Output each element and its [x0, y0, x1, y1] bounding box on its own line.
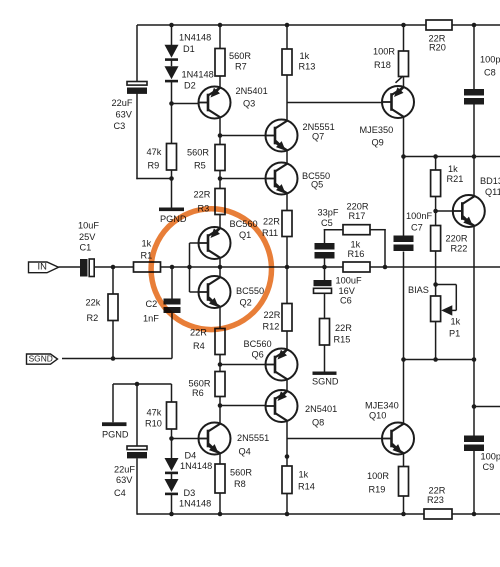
connector SGND tag: [27, 353, 58, 364]
node mid-R21: [433, 154, 438, 159]
wire Q10 base feed: [287, 438, 382, 440]
wire C3 top feed: [136, 25, 138, 82]
wire Q11 base: [436, 210, 453, 212]
resistor R15 labels: [334, 323, 353, 345]
svg-text:Q2: Q2: [240, 297, 252, 307]
wire negative supply rail: [137, 513, 500, 515]
node rail-R19: [401, 512, 406, 517]
svg-text:25V: 25V: [79, 232, 96, 242]
wire R15 to SGND: [324, 345, 326, 372]
wire R21 top: [435, 157, 437, 171]
node C1-R2: [111, 265, 116, 270]
wire C4 to rail: [136, 458, 138, 514]
wire Q3 base: [172, 103, 199, 105]
wire R7 top: [219, 25, 221, 49]
svg-text:16V: 16V: [339, 286, 356, 296]
transistor Q7: [265, 120, 298, 152]
resistor R16 labels: [348, 239, 365, 258]
node base tie: [187, 265, 192, 270]
transistor Q10: [382, 423, 415, 455]
resistor R15: [320, 319, 330, 346]
capacitor C2: [164, 299, 181, 314]
resistor R13 labels: [299, 51, 316, 72]
resistor R8: [215, 464, 225, 493]
svg-text:P1: P1: [449, 328, 460, 338]
potentiometer P1 labels: [449, 316, 461, 338]
svg-text:R14: R14: [298, 481, 315, 491]
transistor Q1: [198, 227, 231, 259]
svg-text:63V: 63V: [116, 475, 133, 485]
transistor Q3: [198, 87, 231, 119]
wire Q10 emitter: [403, 453, 405, 467]
svg-text:Q11: Q11: [485, 187, 500, 197]
resistor R19: [399, 467, 409, 497]
wire C6 to R15: [324, 294, 326, 319]
wire R18 emitter tick: [396, 76, 403, 83]
svg-text:R16: R16: [348, 249, 365, 259]
node Q11 base: [433, 209, 438, 214]
resistor R17: [343, 225, 370, 235]
diode D3: [165, 479, 179, 495]
svg-text:R17: R17: [349, 211, 366, 221]
svg-text:C3: C3: [114, 121, 126, 131]
node supply-R13: [285, 23, 290, 28]
node supply-C8: [472, 23, 477, 28]
svg-text:1k: 1k: [448, 164, 458, 174]
wire R10 top lead: [171, 384, 173, 402]
svg-text:220R: 220R: [446, 233, 468, 243]
wire Q9 base feed: [287, 102, 382, 104]
svg-text:BC550: BC550: [236, 286, 264, 296]
svg-text:Q7: Q7: [312, 131, 324, 141]
svg-text:10uF: 10uF: [78, 220, 99, 230]
diode D2 labels: [182, 69, 214, 90]
transistor Q6 labels: [244, 339, 272, 360]
capacitor C7 labels: [406, 211, 432, 233]
node R9-C3-PGND: [169, 176, 174, 181]
svg-text:1N4148: 1N4148: [179, 498, 211, 508]
svg-text:22R: 22R: [264, 310, 281, 320]
wire R13 top: [286, 25, 288, 49]
wire R11 to node: [286, 237, 288, 268]
wire R13 to Q7: [286, 75, 288, 121]
node rail-R14: [285, 512, 290, 517]
capacitor C3 labels: [112, 98, 133, 131]
transistor Q8: [265, 390, 298, 422]
transistor Q6: [265, 349, 298, 381]
ground SGND symbol: [313, 372, 337, 375]
svg-text:22uF: 22uF: [112, 98, 133, 108]
node R6-Q4-Q8base: [218, 403, 223, 408]
capacitor C2 labels: [143, 299, 159, 324]
resistor R18 labels: [373, 46, 395, 70]
resistor R7 labels: [229, 51, 251, 72]
svg-text:R9: R9: [148, 160, 160, 170]
diode D2: [165, 66, 179, 82]
transistor Q3 labels: [236, 86, 268, 109]
svg-text:100R: 100R: [373, 46, 395, 56]
wire Q5 base: [220, 178, 266, 180]
transistor Q11: [452, 195, 485, 227]
wire PGND2 drop: [112, 384, 114, 422]
resistor R2: [108, 294, 118, 321]
node main-C5: [322, 265, 327, 270]
capacitor C8: [464, 89, 484, 105]
node rail-C9: [472, 512, 477, 517]
capacitor C8 labels: [480, 54, 500, 77]
svg-text:22R: 22R: [335, 323, 352, 333]
resistor R12: [282, 304, 292, 332]
node R4-R6-Q6base: [218, 362, 223, 367]
wire Q4 base feed: [172, 438, 199, 440]
svg-text:R15: R15: [334, 334, 351, 344]
resistor R2 labels: [86, 297, 101, 323]
wire out stub: [474, 406, 500, 408]
svg-text:100R: 100R: [367, 471, 389, 481]
ground PGND top label: [160, 214, 187, 224]
ground PGND top: [159, 208, 184, 212]
svg-text:D1: D1: [183, 44, 195, 54]
resistor R11 labels: [262, 216, 280, 238]
wire C6 top: [324, 267, 326, 280]
node supply-R18: [401, 23, 406, 28]
transistor Q2: [198, 276, 231, 308]
svg-text:BC560: BC560: [244, 339, 272, 349]
wire C8 to mid bus: [473, 105, 475, 157]
resistor R6: [215, 372, 225, 397]
capacitor C4: [127, 446, 147, 458]
wire R8 to rail: [219, 493, 221, 514]
svg-text:100pF: 100pF: [480, 54, 500, 64]
wire Q11 emitter: [473, 226, 475, 360]
wire R18 top: [403, 25, 405, 51]
svg-text:22R: 22R: [194, 189, 211, 199]
resistor R23 labels: [427, 485, 446, 505]
wire D1-D2: [171, 61, 173, 67]
node mid-Q9: [401, 154, 406, 159]
svg-text:100uF: 100uF: [336, 275, 362, 285]
capacitor C6 labels: [336, 275, 362, 305]
svg-text:R5: R5: [194, 160, 206, 170]
node supply-R7: [218, 23, 223, 28]
wire Q8 collector down: [286, 421, 288, 467]
wire Q4 emitter: [219, 453, 221, 464]
wire D2 to R9: [171, 82, 173, 144]
wire R22 to P1: [435, 251, 437, 296]
wire SGND line: [62, 358, 172, 360]
wire R2 to SGND line: [112, 321, 114, 359]
transistor Q9: [382, 86, 415, 118]
wire R4 to R6: [219, 355, 221, 372]
wire Q5 emitter to R11: [286, 193, 288, 211]
capacitor C5 labels: [318, 207, 339, 228]
svg-text:1nF: 1nF: [143, 313, 159, 323]
wire Q2 collector: [219, 267, 221, 278]
svg-text:R22: R22: [451, 243, 468, 253]
node out-right: [472, 404, 477, 409]
svg-text:MJE350: MJE350: [360, 125, 394, 135]
diode D4 labels: [180, 450, 212, 471]
wire C4 top lead: [136, 384, 138, 446]
svg-text:22R: 22R: [263, 216, 280, 226]
wire Q1 collector: [219, 258, 221, 268]
node main-R11: [285, 265, 290, 270]
svg-text:R8: R8: [234, 479, 246, 489]
wire R6 to Q4: [219, 397, 221, 425]
wire R19 to rail: [403, 496, 405, 514]
ground SGND label: [312, 376, 339, 386]
transistor Q11 labels: [480, 176, 500, 197]
wire IN to C1: [59, 266, 81, 268]
svg-text:PGND: PGND: [102, 429, 129, 439]
transistor Q5: [265, 163, 298, 195]
wire D3 to rail: [171, 495, 173, 514]
resistor R14: [282, 466, 292, 494]
wire R12 to Q6: [286, 331, 288, 350]
wire P1 to bias bus: [435, 322, 437, 360]
wire R21-R22: [435, 197, 437, 226]
capacitor C6: [314, 280, 332, 293]
transistor Q8 labels: [305, 404, 337, 428]
wire C2 bottom: [171, 313, 173, 359]
svg-text:R6: R6: [192, 388, 204, 398]
svg-text:1k: 1k: [451, 316, 461, 326]
wire bias bus: [404, 359, 475, 361]
wire R12 top: [286, 267, 288, 304]
node R1-C2: [170, 265, 175, 270]
svg-text:22uF: 22uF: [114, 464, 135, 474]
svg-text:R23: R23: [427, 495, 444, 505]
svg-text:1N4148: 1N4148: [179, 32, 211, 42]
wire C2 top: [171, 267, 173, 299]
svg-text:1k: 1k: [351, 239, 361, 249]
svg-text:Q5: Q5: [311, 179, 323, 189]
svg-text:BD139: BD139: [480, 176, 500, 186]
svg-text:Q6: Q6: [252, 349, 264, 359]
diode D3 labels: [179, 488, 211, 509]
svg-text:2N5401: 2N5401: [236, 86, 268, 96]
svg-text:100p: 100p: [481, 451, 500, 461]
svg-text:SGND: SGND: [29, 353, 53, 363]
capacitor C9: [464, 436, 484, 452]
diode D4: [165, 458, 179, 474]
wire R5 to R3: [219, 171, 221, 189]
svg-text:47k: 47k: [147, 407, 162, 417]
label BIAS: [408, 285, 429, 295]
potentiometer P1: [431, 285, 457, 322]
node Q1-Q2 node: [218, 265, 223, 270]
wire R3 to Q1: [219, 215, 221, 230]
wire R17 to R16 tie: [370, 229, 386, 267]
svg-text:R18: R18: [374, 60, 391, 70]
wire R7 to Q3: [219, 76, 221, 89]
node bias-P1: [433, 357, 438, 362]
svg-text:1k: 1k: [300, 51, 310, 61]
wire Q8 base: [220, 405, 266, 407]
resistor R21: [431, 170, 441, 197]
svg-text:Q4: Q4: [239, 446, 251, 456]
svg-text:R4: R4: [193, 341, 205, 351]
ground PGND bottom label: [102, 429, 129, 439]
svg-text:SGND: SGND: [312, 376, 339, 386]
svg-text:MJE340: MJE340: [365, 400, 399, 410]
capacitor C3: [127, 82, 147, 94]
capacitor C5: [315, 243, 335, 259]
wire C7 bottom: [403, 252, 405, 360]
diode D1 labels: [179, 32, 211, 54]
svg-text:560R: 560R: [187, 147, 209, 157]
wire positive supply rail: [137, 24, 500, 26]
diode D1: [165, 45, 179, 61]
svg-text:BIAS: BIAS: [408, 285, 429, 295]
svg-text:C1: C1: [80, 242, 92, 252]
node C4 top: [135, 382, 140, 387]
resistor R1: [134, 262, 161, 272]
node rail-D3: [169, 512, 174, 517]
transistor Q5 labels: [302, 171, 330, 190]
resistor R9 labels: [147, 147, 162, 171]
resistor R22 labels: [446, 233, 468, 253]
svg-text:33pF: 33pF: [318, 207, 339, 217]
svg-text:63V: 63V: [116, 109, 133, 119]
svg-text:2N5401: 2N5401: [305, 404, 337, 414]
node rail-R8: [218, 512, 223, 517]
wire right rail top: [473, 25, 475, 89]
svg-text:D3: D3: [184, 488, 196, 498]
svg-text:C2: C2: [146, 299, 158, 309]
highlight circle around Q1/Q2: [151, 209, 271, 330]
wire Q1-Q2 base tie: [190, 243, 199, 292]
svg-text:22k: 22k: [86, 297, 101, 307]
svg-text:R20: R20: [429, 42, 446, 52]
svg-text:C9: C9: [483, 462, 495, 472]
node Q8-R14 extra: [285, 454, 290, 459]
connector IN tag: [29, 261, 59, 273]
node BIAS: [433, 282, 438, 287]
resistor R8 labels: [230, 467, 252, 489]
transistor Q9 labels: [360, 125, 394, 148]
svg-text:R21: R21: [447, 174, 464, 184]
wire Q7-Q5: [286, 150, 288, 164]
wire C9 to rail: [473, 451, 475, 514]
svg-text:560R: 560R: [189, 378, 211, 388]
wire PGND2 bus: [113, 383, 172, 385]
resistor R20: [426, 20, 452, 30]
resistor R3 labels: [194, 189, 211, 213]
wire Q7 base: [220, 135, 266, 137]
capacitor C9 labels: [481, 451, 500, 472]
svg-text:Q3: Q3: [243, 98, 255, 108]
svg-text:Q10: Q10: [369, 410, 386, 420]
resistor R4: [215, 329, 225, 355]
transistor Q10 labels: [365, 400, 399, 420]
svg-text:Q8: Q8: [312, 417, 324, 427]
resistor R17 labels: [347, 201, 369, 221]
svg-text:R7: R7: [235, 61, 247, 71]
svg-text:560R: 560R: [230, 467, 252, 477]
wire R10 to D4: [171, 429, 173, 458]
resistor R18: [399, 51, 409, 77]
wire Q9 collector: [403, 117, 405, 157]
wire C1 to R1: [94, 266, 133, 268]
resistor R14 labels: [298, 469, 315, 491]
svg-text:220R: 220R: [347, 201, 369, 211]
wire R18 to Q9: [403, 77, 405, 89]
svg-text:C6: C6: [340, 295, 352, 305]
transistor Q4 labels: [237, 433, 269, 457]
resistor R21 labels: [447, 164, 464, 184]
node R5-R3-Q5base: [218, 176, 223, 181]
wire R1 to bases: [161, 266, 344, 268]
node bias-Q10: [401, 357, 406, 362]
resistor R3: [215, 189, 225, 215]
resistor R2 feed: [112, 267, 114, 294]
wire D1 anode: [171, 25, 173, 45]
svg-text:22R: 22R: [429, 485, 446, 495]
svg-text:1N4148: 1N4148: [182, 69, 214, 79]
wire Q11 collector: [473, 157, 475, 197]
resistor R9: [167, 144, 177, 171]
transistor Q1 labels: [230, 219, 258, 240]
svg-text:R19: R19: [369, 484, 386, 494]
svg-text:C5: C5: [321, 218, 333, 228]
svg-text:1k: 1k: [142, 238, 152, 248]
svg-text:C4: C4: [114, 488, 126, 498]
wire mid bus: [404, 156, 500, 158]
svg-text:2N5551: 2N5551: [237, 433, 269, 443]
svg-text:C7: C7: [411, 222, 423, 232]
wire Q10 collector: [403, 360, 405, 425]
wire C7 top: [403, 157, 405, 236]
node Q3-R5-Q7base: [218, 133, 223, 138]
svg-text:D4: D4: [185, 450, 197, 460]
wire C5 bottom: [324, 259, 326, 268]
wire Q3 collector to R5: [219, 117, 221, 145]
svg-text:R2: R2: [87, 313, 99, 323]
svg-text:47k: 47k: [147, 147, 162, 157]
resistor R7: [215, 49, 225, 77]
resistor R12 labels: [263, 310, 281, 332]
svg-text:2N5551: 2N5551: [303, 122, 335, 132]
resistor R16: [343, 262, 370, 272]
resistor R4 labels: [190, 327, 207, 351]
resistor R13: [282, 49, 292, 75]
wire Q6-Q8: [286, 379, 288, 392]
capacitor C4 labels: [114, 464, 135, 498]
transistor Q2 labels: [236, 286, 264, 308]
svg-text:D2: D2: [184, 80, 196, 90]
resistor R23: [424, 509, 452, 519]
wire main output line: [370, 266, 500, 268]
capacitor C1: [80, 259, 94, 277]
wire Q6 base: [220, 364, 266, 366]
ground PGND bottom: [102, 422, 127, 426]
wire C5 top link: [324, 229, 343, 243]
capacitor C1 labels: [78, 220, 99, 252]
svg-text:100nF: 100nF: [406, 211, 432, 221]
resistor R11: [282, 211, 292, 237]
svg-text:R13: R13: [299, 61, 316, 71]
resistor R1 labels: [141, 238, 153, 260]
svg-text:1N4148: 1N4148: [180, 461, 212, 471]
node R2-SGND: [111, 356, 116, 361]
svg-text:R12: R12: [263, 321, 280, 331]
wire right rail lower: [473, 360, 475, 436]
transistor Q7 labels: [303, 122, 335, 142]
resistor R6 labels: [189, 378, 211, 398]
resistor R20 labels: [429, 33, 446, 52]
node D2-R9-Q3base: [169, 101, 174, 106]
